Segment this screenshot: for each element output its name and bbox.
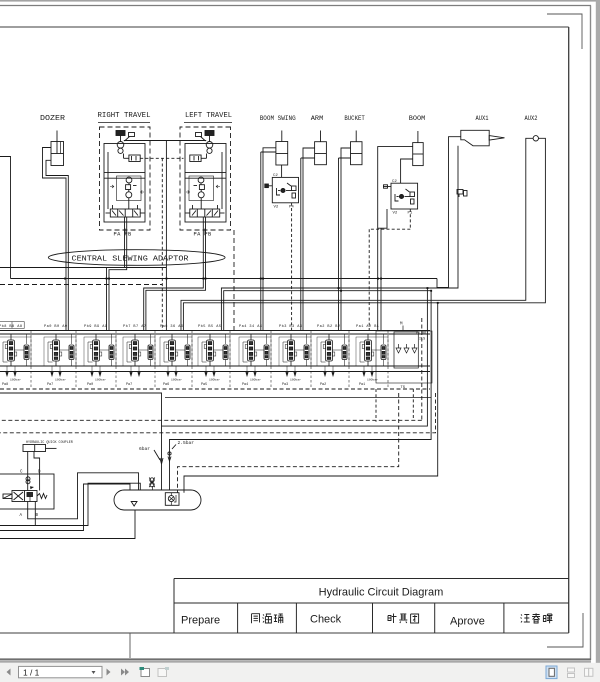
page border bottom [0, 658, 591, 660]
wire valve A port [28, 473, 139, 519]
svg-text:P1 BR: P1 BR [416, 332, 426, 336]
svg-text:Pb8 B8 A8: Pb8 B8 A8 [0, 324, 22, 329]
wire third return [0, 484, 130, 531]
bottom page shadow [0, 660, 591, 663]
svg-text:BOOM SWING: BOOM SWING [260, 115, 296, 122]
wire right travel pilot pair jog [0, 217, 166, 330]
svg-text:Pa1: Pa1 [359, 383, 365, 387]
boom swing cylinder [276, 131, 288, 166]
right travel motor block [100, 127, 167, 235]
svg-text:100bar: 100bar [10, 377, 21, 381]
title block grid [174, 579, 569, 634]
wire dozer port B [46, 160, 68, 330]
svg-text:2.5bar: 2.5bar [178, 440, 195, 446]
svg-text:C2: C2 [273, 174, 278, 178]
wire boom swing feed pair [261, 148, 276, 330]
wire bank drain to tank [0, 393, 162, 490]
svg-text:Pa2: Pa2 [320, 383, 326, 387]
svg-text:Pa1 A2 BL: Pa1 A2 BL [356, 325, 379, 329]
svg-text:Pa6 36 A6: Pa6 36 A6 [160, 325, 183, 329]
wire left feed riser [0, 157, 11, 279]
toolbar last arrow [121, 669, 129, 676]
window top shadow strip [0, 0, 600, 2]
wire aux1 line B [221, 146, 458, 330]
svg-text:100bar: 100bar [290, 377, 301, 381]
machine boundary dashed left [0, 284, 163, 286]
svg-text:Pa4 34 A4: Pa4 34 A4 [239, 325, 262, 329]
svg-text:Pb5 B5 A5: Pb5 B5 A5 [198, 324, 221, 329]
bank sections inserted here [0, 322, 388, 389]
dashed stub below bank 2 [412, 389, 414, 420]
wire boom valve drain dashed [369, 209, 410, 330]
outer frame corner bottom-right [547, 613, 583, 647]
coupler rod [46, 447, 57, 449]
svg-text:RIGHT TRAVEL: RIGHT TRAVEL [98, 112, 151, 120]
wire boom feed left [378, 147, 413, 330]
valve section 3 [84, 324, 116, 389]
svg-text:6bar: 6bar [139, 446, 150, 452]
machine boundary dashed mid [233, 230, 235, 330]
wire dozer port A [43, 148, 67, 331]
aux2 coupling circle [533, 136, 538, 141]
tank filter [165, 493, 179, 506]
boom swing valve block U-BS [265, 177, 299, 202]
svg-text:100bar: 100bar [171, 377, 182, 381]
page border right [590, 6, 592, 661]
inner frame bottom [0, 632, 569, 634]
svg-text:Prepare: Prepare [181, 615, 220, 627]
toolbar page combo [19, 666, 103, 677]
quick coupler cylinder [23, 445, 46, 452]
bank lower right outline [376, 331, 432, 383]
svg-text:Pa3: Pa3 [282, 383, 288, 387]
orifice symbol [26, 477, 30, 484]
wire aux1 line A with step [437, 137, 461, 288]
svg-text:PA PB: PA PB [194, 232, 213, 238]
toolbar icon rotate1 [140, 667, 150, 677]
svg-text:AUX1: AUX1 [476, 115, 489, 122]
right window shadow [596, 0, 600, 663]
toolbar background [0, 663, 600, 682]
toolbar icon two page [585, 668, 593, 676]
dashed stub below bank 1 [375, 389, 377, 422]
svg-text:100bar: 100bar [55, 377, 66, 381]
label LEFT TRAVEL [184, 112, 232, 123]
svg-text:100bar: 100bar [367, 377, 378, 381]
valve section 4 [123, 324, 155, 389]
svg-text:BOOM: BOOM [409, 115, 426, 122]
name glyphs Ye Qituan [388, 614, 419, 624]
end block check valves [396, 344, 417, 353]
svg-text:Check: Check [310, 614, 342, 626]
valve section 10 [356, 325, 388, 389]
toolbar icon single page active [546, 666, 557, 679]
valve bank top rail 2 [0, 333, 430, 335]
dozer cylinder [51, 131, 64, 166]
svg-text:Pa7: Pa7 [126, 383, 132, 387]
relief valve 2.5bar [168, 445, 176, 462]
aux1 check valve CKT [457, 190, 467, 198]
wire 2.5bar line [170, 291, 432, 490]
svg-text:Pa4: Pa4 [242, 383, 248, 387]
svg-text:Pa6: Pa6 [163, 383, 169, 387]
solenoid valve box [0, 474, 54, 509]
svg-text:Pa2 B2 B2: Pa2 B2 B2 [317, 325, 340, 329]
svg-text:Hydraulic Circuit Diagram: Hydraulic Circuit Diagram [319, 587, 444, 599]
tank [114, 490, 201, 510]
svg-text:AUX2: AUX2 [525, 115, 538, 122]
svg-text:Aprove: Aprove [450, 616, 485, 628]
svg-text:Pa5: Pa5 [201, 383, 207, 387]
svg-text:ILS: ILS [419, 338, 425, 342]
sheet fold tick bottom-left [129, 633, 131, 658]
toolbar icon scroll pages [568, 668, 575, 678]
toolbar next arrow [107, 669, 111, 676]
svg-text:1 / 1: 1 / 1 [23, 667, 40, 677]
wire coupler jog D [34, 452, 40, 491]
outer frame corner top-right [547, 14, 582, 49]
svg-text:CENTRAL SLEWING ADAPTOR: CENTRAL SLEWING ADAPTOR [72, 255, 190, 263]
name glyphs Wang Chunhui [521, 613, 553, 623]
svg-text:DOZER: DOZER [40, 115, 66, 123]
svg-text:V2: V2 [274, 206, 279, 210]
tank strainer triangle [131, 502, 137, 507]
bank end dashed right [421, 318, 423, 420]
wire aux2 line B [183, 138, 545, 330]
tank drain line [0, 510, 135, 539]
wire mid return line [162, 288, 428, 426]
aux1 hammer breaker [461, 130, 505, 146]
wire boom cyl bottom to valve [401, 159, 413, 183]
wire left travel pilot pair jog [144, 217, 206, 330]
boom valve block U-BM [383, 183, 418, 209]
coupling symbol [149, 477, 155, 487]
inner frame top [0, 26, 569, 28]
wire arm feed pair [301, 148, 315, 330]
valve section 7 [239, 325, 271, 389]
wire right travel counterbalance pilot [140, 157, 183, 159]
arm cylinder [315, 131, 327, 165]
wire bucket feed pair [339, 148, 351, 330]
wire main bus S1 [11, 278, 438, 280]
wire return to tank right [184, 303, 438, 493]
toolbar prev arrow [7, 669, 11, 676]
svg-text:Pa8: Pa8 [2, 383, 8, 387]
bank end block outline [394, 332, 418, 368]
svg-text:100bar: 100bar [95, 377, 106, 381]
wire dashed return 2 [0, 393, 436, 433]
svg-text:100bar: 100bar [250, 377, 261, 381]
solenoid directional valve [3, 491, 47, 502]
name glyphs Yan Hairui [252, 614, 284, 624]
valve bank bottom dashed boundary [0, 388, 430, 390]
tiny arrow below orifice [30, 486, 34, 489]
wire center travel line solid [165, 141, 167, 331]
bank lower boundary right [165, 397, 431, 399]
junction dots [64, 278, 439, 304]
inner frame right [568, 27, 570, 633]
svg-text:Pa7: Pa7 [47, 383, 53, 387]
valve section 9 [317, 325, 349, 389]
wire boom swing valve drain dashed [291, 203, 293, 330]
svg-text:ARM: ARM [311, 115, 324, 122]
svg-text:LEFT TRAVEL: LEFT TRAVEL [185, 112, 232, 120]
wire dashed return 1 [0, 419, 422, 421]
valve section 8 [279, 324, 311, 389]
wire boom swing cyl to valve [281, 165, 283, 177]
toolbar icon rotate2 [158, 667, 169, 677]
svg-text:C2: C2 [392, 180, 397, 184]
svg-text:V2: V2 [393, 211, 398, 215]
page border top [0, 5, 591, 7]
valve section 1 [0, 322, 31, 389]
wire aux2 line A [181, 138, 533, 330]
svg-text:Pa0: Pa0 [87, 383, 93, 387]
wire stair G2 lower [224, 291, 431, 330]
svg-text:Pb9 B9 A9: Pb9 B9 A9 [84, 324, 107, 329]
svg-text:BUCKET: BUCKET [344, 115, 365, 122]
relief valve 6bar [154, 450, 163, 464]
wire dashed TS line [178, 393, 399, 493]
wire coupler down C [27, 452, 29, 491]
coupling stub [152, 486, 154, 490]
valve bank bottom rail 2 [0, 371, 430, 373]
svg-text:PA PB: PA PB [114, 232, 133, 238]
valve bank top rail 1 [0, 330, 430, 332]
valve bank bottom rail 1 [0, 365, 430, 367]
svg-text:100bar: 100bar [209, 377, 220, 381]
label RIGHT TRAVEL [98, 112, 151, 123]
valve section 6 [198, 324, 230, 389]
left travel motor block mirrored [164, 127, 231, 235]
valve section 5 [160, 325, 192, 389]
svg-text:Pb7 B7 A7: Pb7 B7 A7 [123, 324, 146, 329]
svg-text:Pa0 B0 A0: Pa0 B0 A0 [44, 325, 67, 329]
svg-text:Pb3 B3 A3: Pb3 B3 A3 [279, 324, 302, 329]
valve section 2 [44, 325, 76, 389]
bucket cylinder [351, 131, 363, 165]
wire valve B port [0, 483, 140, 525]
svg-text:TS: TS [401, 386, 406, 390]
central slewing adaptor ellipse [48, 250, 225, 266]
boom cylinder [413, 131, 424, 166]
wire center travel pilot dashed [161, 158, 163, 330]
